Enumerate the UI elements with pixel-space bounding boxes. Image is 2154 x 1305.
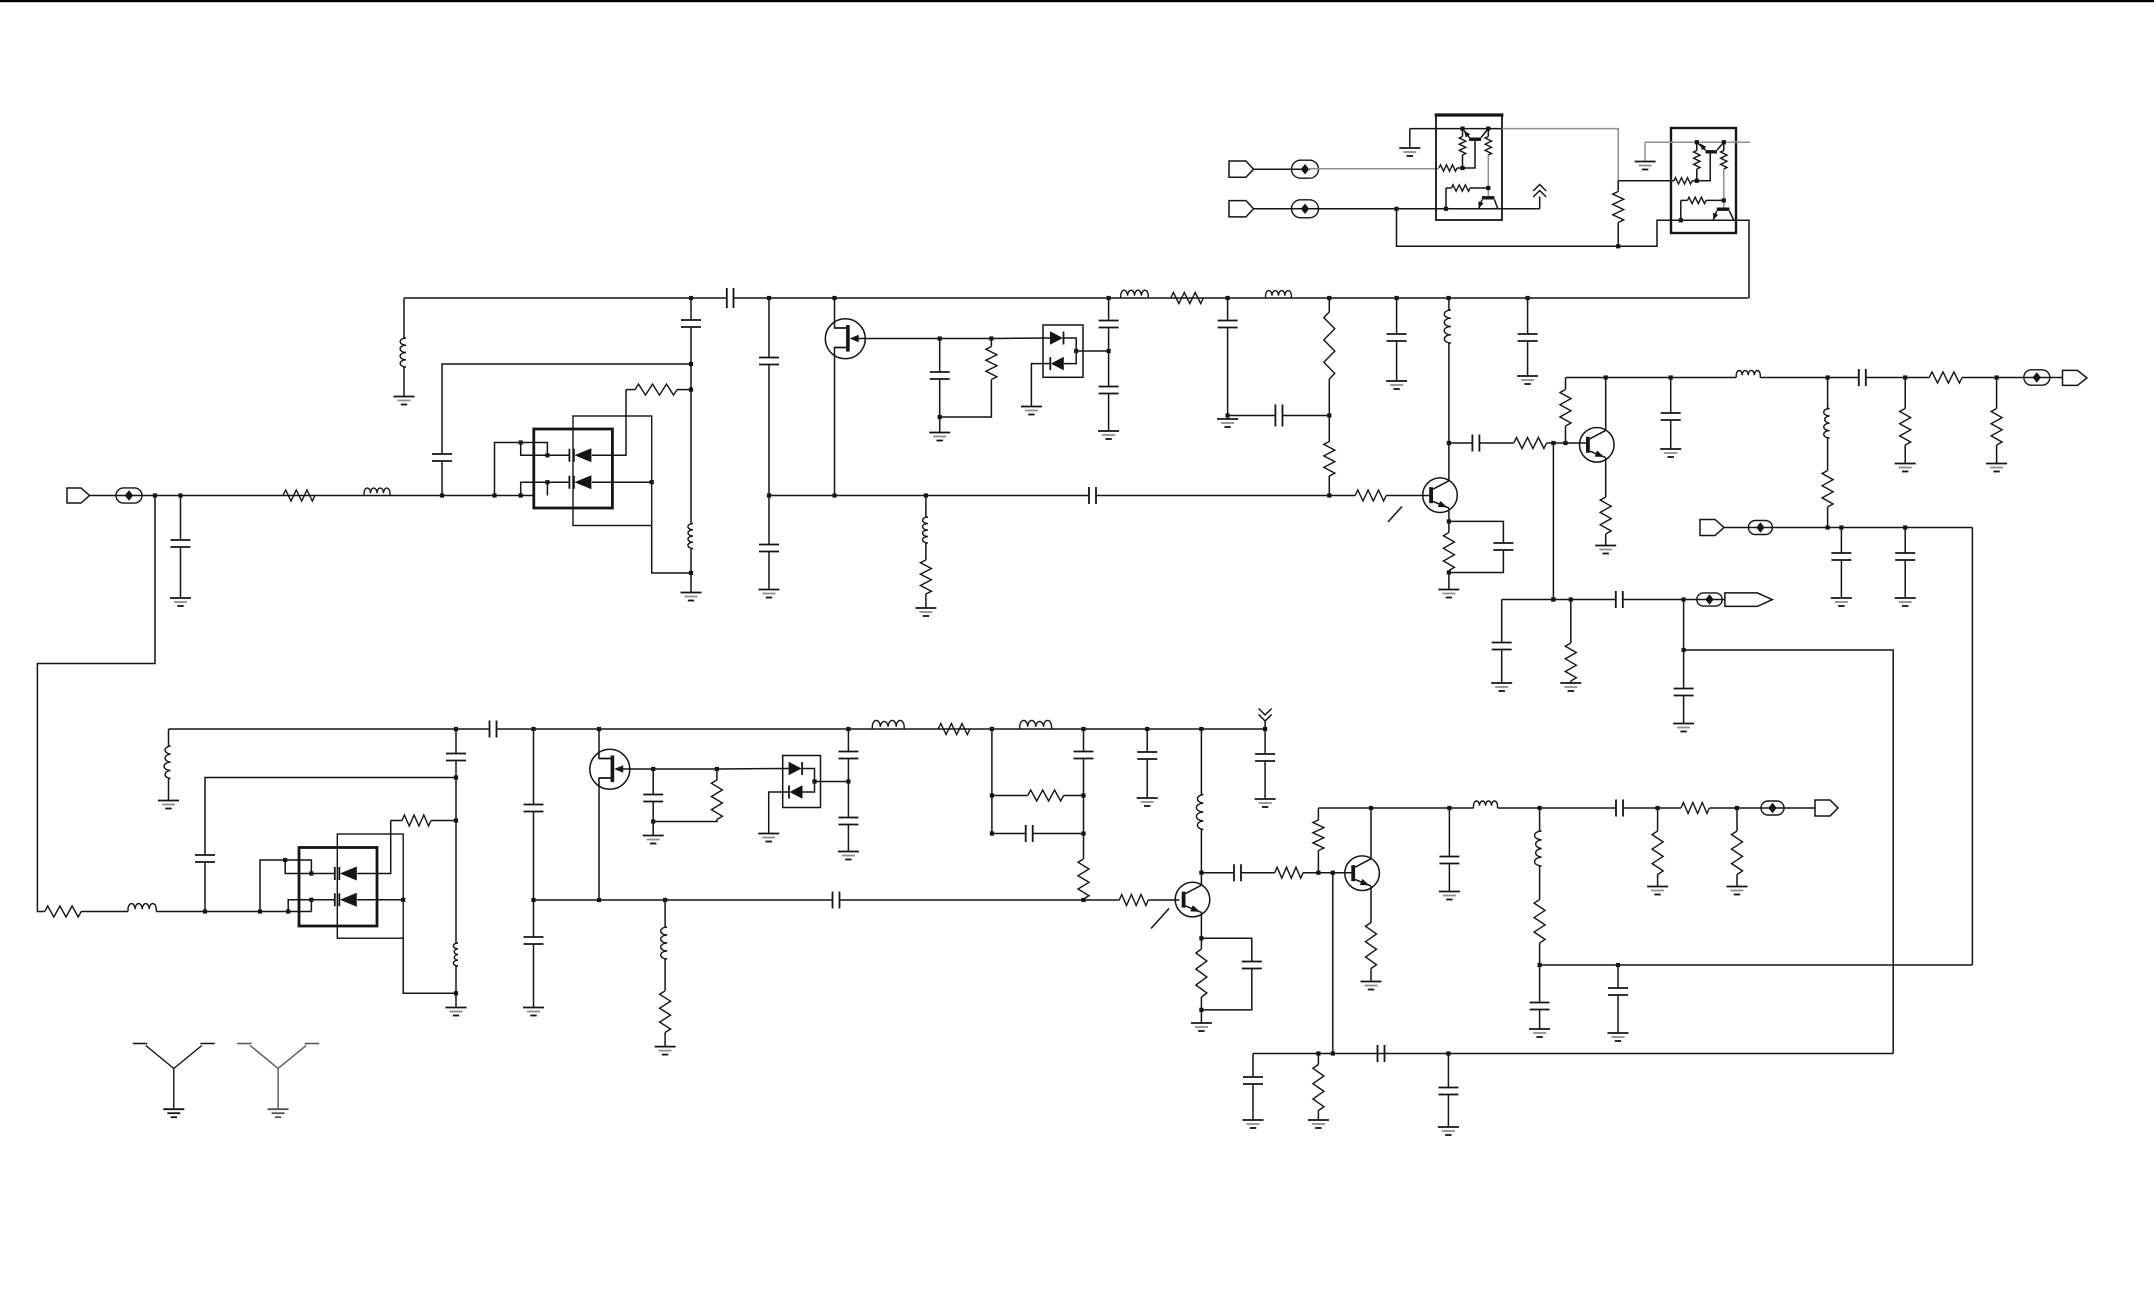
- wire: [1108, 328, 1110, 352]
- wire: [940, 338, 992, 340]
- resistor R13: [1929, 372, 1962, 383]
- junction: [1551, 597, 1555, 601]
- resistor R36: [1313, 820, 1324, 851]
- wire: [1539, 808, 1541, 831]
- ground: [1660, 448, 1681, 450]
- wire (U2 top internal rail): [1645, 141, 1750, 143]
- wire (Q5 collector): [1200, 830, 1202, 886]
- junction: [258, 909, 262, 913]
- wire (D5 cathode): [357, 821, 390, 874]
- wire: [1657, 875, 1659, 887]
- junction: [812, 779, 816, 783]
- antenna AN1: [133, 1044, 215, 1110]
- junction: [1263, 727, 1267, 731]
- wire: [1283, 415, 1330, 417]
- capacitor C7: [930, 372, 950, 379]
- resistor R16: [1991, 409, 2002, 446]
- resistor R29: [1119, 895, 1148, 906]
- wire: [690, 327, 692, 364]
- wire: [1501, 650, 1503, 684]
- wire: [626, 389, 635, 391]
- capacitor C38: [1243, 1077, 1263, 1084]
- resistor R28: [402, 815, 431, 826]
- IC U2 outline: [1671, 128, 1736, 233]
- wire (top bias rail): [404, 297, 727, 299]
- wire: [1148, 899, 1179, 901]
- capacitor C35: [1439, 857, 1459, 864]
- wire (D1 cathode): [592, 390, 626, 456]
- wire: [1108, 298, 1110, 321]
- ground: [1673, 723, 1694, 725]
- wire: [690, 549, 692, 593]
- wire (varactor D2 anode stub): [521, 482, 570, 495]
- wire: [1303, 872, 1351, 874]
- wire (feedback loop): [1684, 650, 1894, 1054]
- wire (U2.T1 base): [1697, 154, 1710, 181]
- ground: [1438, 589, 1459, 591]
- junction: [545, 453, 549, 457]
- wire (U1.T1 emitter): [1463, 129, 1470, 138]
- wire: [925, 594, 927, 608]
- wire: [1539, 1010, 1541, 1030]
- junction: [1226, 296, 1230, 300]
- wire (Q1 gate net): [865, 338, 939, 340]
- wire: [768, 298, 770, 358]
- ground: [1243, 1119, 1264, 1121]
- capacitor C11: [1493, 543, 1513, 550]
- wire: [1539, 866, 1541, 900]
- wire: [1683, 696, 1685, 724]
- wire: [690, 364, 692, 524]
- wire: [1736, 808, 1738, 831]
- junction: [178, 493, 182, 497]
- wire: [1527, 298, 1529, 334]
- wire (to U1 input): [1308, 168, 1439, 170]
- wire: [1539, 965, 1541, 1003]
- capacitor C9: [1099, 387, 1119, 394]
- port P3 (output 1): [2063, 370, 2087, 385]
- wire: [1264, 721, 1266, 729]
- capacitor C21: [446, 754, 466, 761]
- junction: [938, 415, 942, 419]
- resistor R14: [1822, 471, 1833, 508]
- wire (Q3 collector): [1448, 343, 1450, 481]
- resistor R41: [1732, 831, 1743, 875]
- ground: [1895, 463, 1916, 465]
- ground: [1647, 886, 1668, 888]
- wire: [939, 339, 941, 373]
- transistor U2.T2 bar: [1717, 208, 1730, 211]
- junction: [1447, 806, 1451, 810]
- wire: [1252, 1084, 1254, 1120]
- wire (D4 to ground): [1031, 364, 1050, 407]
- diode block U4 outline: [1043, 325, 1083, 377]
- inductor L16: [1535, 831, 1542, 866]
- ground: [1217, 418, 1238, 420]
- junction: [689, 362, 693, 366]
- wire (band-2 bias rail): [169, 728, 490, 730]
- junction: [651, 767, 655, 771]
- varactor diode D1: [569, 449, 574, 462]
- junction: [846, 727, 850, 731]
- junction: [846, 779, 850, 783]
- resistor R18: [1613, 192, 1624, 223]
- junction: [663, 898, 667, 902]
- ground: [1399, 147, 1420, 149]
- resistor R7: [1324, 442, 1335, 477]
- wire: [1487, 155, 1489, 196]
- wire: [391, 820, 402, 822]
- wire (main input net): [156, 495, 534, 497]
- junction: [1551, 597, 1555, 601]
- junction: [531, 727, 535, 731]
- resistor R17: [1565, 643, 1576, 681]
- varactor block U3 outline (thick): [534, 429, 613, 508]
- wire: [1904, 528, 1906, 554]
- junction: [1107, 349, 1111, 353]
- wire: [1108, 394, 1110, 432]
- wire: [716, 769, 718, 780]
- wire (U1.T2 collector): [1494, 200, 1497, 209]
- wire: [1623, 599, 1725, 601]
- capacitor C27: [838, 752, 858, 759]
- wire (U1 out to U2): [1502, 129, 1618, 181]
- ground: [929, 432, 950, 434]
- wire: [403, 938, 456, 993]
- ground: [1191, 1022, 1212, 1024]
- arrowhead: [1713, 213, 1718, 220]
- junction: [1735, 806, 1739, 810]
- wire: [1096, 495, 1329, 497]
- varactor diode D5: [335, 867, 340, 880]
- ground: [1831, 597, 1852, 599]
- junction: [651, 819, 655, 823]
- wire: [768, 552, 770, 590]
- junction: [1526, 296, 1530, 300]
- junction: [689, 296, 693, 300]
- junction: [1316, 871, 1320, 875]
- inductor L1: [364, 488, 390, 495]
- wire: [1962, 377, 2062, 379]
- junction: [1682, 597, 1686, 601]
- wire: [840, 899, 1120, 901]
- wire (stage-1 net): [769, 495, 1089, 497]
- junction: [454, 991, 458, 995]
- wire (U2.T1 collector): [1717, 142, 1724, 150]
- wire: [1470, 187, 1488, 189]
- wire: [1570, 600, 1572, 644]
- wire: [1033, 833, 1084, 835]
- ground: [1727, 886, 1748, 888]
- junction: [1446, 1051, 1450, 1055]
- junction: [1145, 727, 1149, 731]
- transistor U1.T1 bar: [1469, 138, 1481, 141]
- ground: [1608, 1032, 1629, 1034]
- IC U1 top edge: [1435, 113, 1504, 116]
- wire: [1683, 650, 1685, 689]
- wire: [847, 782, 849, 818]
- inductor L17: [923, 517, 928, 543]
- wire (varactor D6 anode stub): [288, 900, 335, 912]
- ground: [446, 1007, 467, 1009]
- junction: [1199, 936, 1203, 940]
- wire: [204, 862, 206, 912]
- capacitor C28: [838, 818, 858, 825]
- wire: [1904, 561, 1906, 599]
- resistor R30: [711, 780, 722, 820]
- ground: [1986, 463, 2007, 465]
- resistor R42: [1313, 1065, 1324, 1111]
- capacitor C14: [1661, 413, 1681, 420]
- wire: [1565, 426, 1567, 443]
- ground: [1137, 797, 1158, 799]
- resistor R27: [45, 906, 81, 917]
- wire: [1706, 199, 1724, 201]
- junction: [1460, 127, 1464, 131]
- capacitor C2: [432, 454, 452, 461]
- junction: [1074, 349, 1078, 353]
- wire: [1328, 476, 1330, 496]
- diode D7: [789, 762, 802, 776]
- capacitor C40: [1438, 1088, 1458, 1095]
- resistor R40: [1652, 831, 1663, 875]
- wire (to band-2 input): [37, 496, 155, 912]
- wire: [1448, 571, 1450, 573]
- wire: [652, 802, 654, 822]
- MOSFET Q1: [825, 319, 865, 359]
- junction: [519, 493, 523, 497]
- wire: [1200, 729, 1202, 795]
- ground: [170, 597, 191, 599]
- junction: [1679, 218, 1683, 222]
- wire: [991, 729, 993, 834]
- wire: [1996, 445, 1998, 464]
- wire: [1565, 378, 1567, 390]
- junction: [454, 775, 458, 779]
- wire: [1228, 415, 1276, 417]
- junction: [1903, 375, 1907, 379]
- ground: [394, 396, 415, 398]
- wire (Q2 drain): [599, 729, 612, 759]
- wire: [925, 496, 927, 518]
- ground: [758, 833, 779, 835]
- wire: [1448, 298, 1450, 310]
- wire: [1146, 729, 1148, 752]
- resistor U1.R3: [1485, 137, 1491, 156]
- ground: [915, 607, 936, 609]
- wire: [1445, 188, 1447, 209]
- capacitor C15: [1831, 553, 1851, 560]
- capacitor C30: [1074, 752, 1094, 759]
- capacitor C29: [1026, 825, 1033, 842]
- wire (U1.T1 base): [1463, 141, 1476, 168]
- wire (Q5 emitter): [1200, 912, 1202, 938]
- wire (D2 cathode): [592, 481, 652, 483]
- wire: [652, 526, 691, 574]
- wire: [285, 860, 311, 874]
- wire: [768, 365, 770, 496]
- junction: [832, 296, 836, 300]
- ground: [1098, 430, 1119, 432]
- junction: [1682, 648, 1686, 652]
- wire: [1680, 200, 1682, 220]
- wire: [180, 547, 182, 598]
- wire: [521, 443, 548, 456]
- wire (output net): [1566, 377, 1737, 379]
- wire: [1840, 528, 1842, 554]
- wire: [168, 729, 170, 746]
- ground: [681, 592, 702, 594]
- wire: [992, 795, 1028, 797]
- resistor R3: [986, 347, 997, 380]
- resistor R1: [283, 490, 315, 501]
- wire: [1227, 416, 1229, 420]
- resistor U2.R4: [1688, 197, 1707, 203]
- junction: [1563, 441, 1567, 445]
- inductor L12: [872, 720, 904, 729]
- wire: [1696, 169, 1698, 181]
- wire: [1201, 969, 1251, 1010]
- wire: [533, 944, 535, 1008]
- junction: [153, 493, 157, 497]
- wire (stage-2 net): [1502, 599, 1616, 601]
- wire: [1462, 155, 1464, 168]
- inductor L15: [1474, 801, 1498, 808]
- wire: [1449, 521, 1504, 543]
- wire: [1448, 573, 1450, 590]
- wire: [925, 543, 927, 560]
- inductor L11: [164, 746, 171, 779]
- wire: [1539, 197, 1541, 209]
- junction: [1486, 186, 1490, 190]
- antenna AN2: [237, 1044, 319, 1110]
- wire: [1570, 681, 1572, 683]
- junction: [401, 898, 405, 902]
- diode block U6 outline: [783, 756, 821, 808]
- wire: [1448, 808, 1450, 857]
- wire: [1064, 351, 1076, 364]
- wire: [1396, 298, 1398, 334]
- port P8 (output 3): [1815, 800, 1838, 816]
- resistor R2: [635, 384, 677, 395]
- junction: [309, 898, 313, 902]
- wire (Q1 drain): [835, 298, 848, 328]
- diode D4: [1049, 357, 1051, 370]
- junction: [1695, 179, 1699, 183]
- junction: [1722, 140, 1726, 144]
- junction: [990, 727, 994, 731]
- wire: [1539, 943, 1541, 965]
- wire: [1201, 938, 1251, 961]
- capacitor C18: [1616, 591, 1623, 608]
- wire: [1827, 507, 1829, 528]
- wire (U1 to U2 link): [1397, 209, 1750, 298]
- resistor R35: [1275, 867, 1303, 878]
- capacitor C23: [524, 805, 544, 812]
- resistor R33: [1078, 859, 1089, 899]
- inductor L13: [1020, 720, 1052, 729]
- termination T2: [1697, 593, 1722, 606]
- junction: [1656, 806, 1660, 810]
- wire: [1457, 167, 1463, 169]
- BJT Q6: [1345, 856, 1380, 891]
- junction: [1081, 898, 1085, 902]
- IC U1 outline: [1436, 115, 1502, 220]
- wire (Q1 source): [835, 348, 848, 496]
- wire: [803, 782, 815, 793]
- capacitor C16: [1895, 553, 1915, 560]
- wire: [653, 820, 717, 822]
- junction: [1447, 570, 1451, 574]
- wire: [1083, 759, 1085, 860]
- wire: [1200, 938, 1202, 949]
- wire: [1200, 1010, 1202, 1023]
- resistor R9: [1443, 533, 1454, 571]
- wire: [1617, 995, 1619, 1033]
- junction: [1839, 525, 1843, 529]
- wire: [1617, 181, 1619, 192]
- wire: [431, 820, 456, 822]
- ground: [523, 1007, 544, 1009]
- junction: [1107, 296, 1111, 300]
- wire (band-2 bias net): [1253, 1053, 1893, 1055]
- junction: [1444, 207, 1448, 211]
- varactor block U5 outline (thin): [337, 834, 403, 938]
- junction: [545, 480, 549, 484]
- wire (top bias rail): [734, 297, 1749, 299]
- capacitor C26: [643, 795, 663, 802]
- wire: [1328, 379, 1330, 416]
- wire: [1064, 795, 1084, 797]
- inductor L9: [128, 904, 156, 912]
- capacitor C3: [681, 320, 701, 327]
- ground: [1491, 682, 1512, 684]
- junction: [1569, 597, 1573, 601]
- varactor block U3 outline (thin): [573, 416, 652, 526]
- wire: [1479, 442, 1513, 444]
- wire: [90, 495, 157, 497]
- BJT Q4: [1580, 428, 1615, 463]
- inductor L8: [1824, 409, 1830, 439]
- junction: [1695, 140, 1699, 144]
- junction: [689, 571, 693, 575]
- junction: [1826, 375, 1830, 379]
- junction: [454, 818, 458, 822]
- wire (AGC net): [1724, 527, 1972, 529]
- junction: [283, 858, 287, 862]
- wire (varactor D5 anode stub): [260, 860, 335, 912]
- ground: [1255, 798, 1276, 800]
- junction: [767, 296, 771, 300]
- power arrow VCC2: [1259, 715, 1272, 722]
- junction: [1903, 525, 1907, 529]
- wire: [1317, 808, 1319, 820]
- capacitor C5: [759, 545, 779, 552]
- wire: [1683, 600, 1685, 651]
- junction: [1538, 963, 1542, 967]
- junction: [1327, 493, 1331, 497]
- wire: [1076, 350, 1108, 352]
- resistor R32: [1028, 790, 1064, 801]
- wire: [1446, 187, 1452, 189]
- wire: [1241, 872, 1275, 874]
- power arrow VCC1: [1533, 185, 1546, 192]
- wire: [815, 781, 849, 783]
- resistor U1.R4: [1452, 185, 1471, 191]
- ground: [1386, 380, 1407, 382]
- junction: [1394, 207, 1398, 211]
- wire: [1709, 807, 1815, 809]
